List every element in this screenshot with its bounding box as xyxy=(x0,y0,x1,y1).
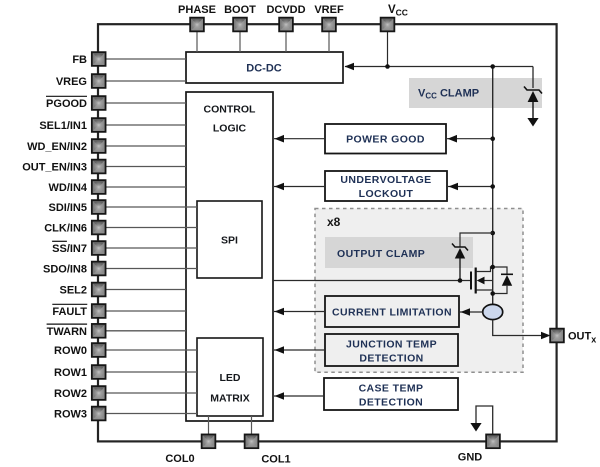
svg-text:DC-DC: DC-DC xyxy=(246,63,281,75)
pin ROW0 xyxy=(92,343,106,357)
pin VREF xyxy=(322,18,336,32)
control logic block xyxy=(186,92,273,421)
pin DCVDD xyxy=(279,18,293,32)
svg-text:ROW3: ROW3 xyxy=(54,409,87,421)
wire SEL2 xyxy=(104,289,186,291)
wire Vcc stub xyxy=(387,30,389,67)
pin BOOT xyxy=(233,18,247,32)
node bus top junction xyxy=(490,64,495,69)
pin WD_EN/IN2 xyxy=(92,139,106,153)
svg-text:VREF: VREF xyxy=(314,4,344,16)
pin GND xyxy=(486,435,500,449)
svg-text:DETECTION: DETECTION xyxy=(359,397,423,409)
wire OUT_EN/IN3 xyxy=(104,166,186,168)
pin VREG xyxy=(92,74,106,88)
case temp detection block xyxy=(324,378,458,410)
current sense source xyxy=(483,304,503,319)
svg-text:CASE TEMP: CASE TEMP xyxy=(359,383,424,395)
svg-text:COL1: COL1 xyxy=(261,454,290,466)
svg-text:GND: GND xyxy=(458,452,483,464)
svg-text:SDO/IN8: SDO/IN8 xyxy=(43,264,87,276)
wire FB xyxy=(104,58,186,60)
wire VREF stub xyxy=(328,30,330,52)
ground arrow xyxy=(470,423,481,432)
svg-text:LOGIC: LOGIC xyxy=(213,123,247,135)
svg-text:WD/IN4: WD/IN4 xyxy=(49,182,88,194)
wire SDO/IN8 xyxy=(104,268,197,270)
svg-text:SS/IN7: SS/IN7 xyxy=(52,243,87,255)
wire PHASE stub xyxy=(196,30,198,52)
svg-text:MATRIX: MATRIX xyxy=(210,393,249,405)
svg-text:ROW2: ROW2 xyxy=(54,388,87,400)
svg-text:BOOT: BOOT xyxy=(224,4,256,16)
pin OUT_EN/IN3 xyxy=(92,160,106,174)
node drain clamp junction xyxy=(490,231,495,236)
wire PGOOD xyxy=(104,102,186,104)
svg-text:POWER GOOD: POWER GOOD xyxy=(346,134,425,146)
wire ROW2 xyxy=(104,392,197,394)
wire WD/IN4 xyxy=(104,186,186,188)
svg-text:JUNCTION TEMP: JUNCTION TEMP xyxy=(346,339,437,351)
wire TWARN xyxy=(104,330,186,332)
svg-text:OUTPUT CLAMP: OUTPUT CLAMP xyxy=(337,248,425,260)
svg-text:SEL1/IN1: SEL1/IN1 xyxy=(39,120,87,132)
svg-text:FAULT: FAULT xyxy=(52,306,87,318)
node UVLO tap xyxy=(490,184,495,189)
wire COL0 stub xyxy=(208,416,210,436)
node power good tap xyxy=(490,136,495,141)
svg-text:DCVDD: DCVDD xyxy=(266,4,305,16)
pin FAULT xyxy=(92,304,106,318)
transistor output MOSFET xyxy=(471,267,493,294)
SPI block xyxy=(197,201,262,278)
x8 output cell dashed block xyxy=(315,209,523,373)
wire case temp to control xyxy=(274,395,324,397)
pin PHASE xyxy=(190,18,204,32)
DC-DC block xyxy=(186,52,343,83)
pin SDI/IN5 xyxy=(92,200,106,214)
wire SS/IN7 xyxy=(104,247,197,249)
svg-text:x8: x8 xyxy=(327,215,341,229)
wire VREG xyxy=(104,80,186,82)
wire sense to current limitation xyxy=(460,311,483,313)
pin SS/IN7 xyxy=(92,241,106,255)
overline TWARN xyxy=(47,323,88,325)
wire output net xyxy=(493,320,542,336)
wire COL1 stub xyxy=(251,416,253,436)
node clamp to gate junction xyxy=(458,278,463,283)
svg-text:FB: FB xyxy=(72,54,87,66)
pin SEL1/IN1 xyxy=(92,118,106,132)
node source junction xyxy=(490,291,495,296)
wire power good to control xyxy=(274,138,325,140)
wire current limitation to control xyxy=(274,311,325,313)
overline FAULT xyxy=(52,303,87,305)
svg-text:PGOOD: PGOOD xyxy=(46,98,87,110)
current limitation block xyxy=(325,296,459,327)
output clamp shaded band xyxy=(325,237,473,268)
pin SDO/IN8 xyxy=(92,262,106,276)
pin WD/IN4 xyxy=(92,180,106,194)
Vcc clamp shaded band xyxy=(409,78,542,108)
wire ROW0 xyxy=(104,349,197,351)
zener diode Vcc clamp xyxy=(524,87,542,120)
LED matrix block xyxy=(197,338,263,416)
wire FAULT xyxy=(104,310,186,312)
vertical Vcc bus xyxy=(492,67,494,306)
pin OUTx xyxy=(550,329,564,343)
pin Vcc xyxy=(381,18,395,32)
svg-text:SPI: SPI xyxy=(221,235,238,247)
junction temp detection block xyxy=(325,334,458,366)
svg-text:WD_EN/IN2: WD_EN/IN2 xyxy=(27,141,87,153)
pin ROW3 xyxy=(92,407,106,421)
pin ROW2 xyxy=(92,386,106,400)
pin CLK/IN6 xyxy=(92,221,106,235)
chip boundary xyxy=(98,24,557,441)
wire WD_EN/IN2 xyxy=(104,145,186,147)
wire clamp branch xyxy=(460,233,493,247)
pin FB xyxy=(92,52,106,66)
svg-text:SEL2: SEL2 xyxy=(59,285,87,297)
wire gate drive from control xyxy=(273,280,471,282)
svg-text:CLK/IN6: CLK/IN6 xyxy=(44,223,87,235)
power good block xyxy=(325,124,446,154)
wire internal ground return xyxy=(476,406,493,434)
wire UVLO to control xyxy=(274,186,325,188)
svg-text:LED: LED xyxy=(220,372,241,384)
wire junction temp to control xyxy=(274,349,325,351)
wire SEL1/IN1 xyxy=(104,124,186,126)
wire bus to power good xyxy=(447,138,493,140)
pin SEL2 xyxy=(92,283,106,297)
wire ROW3 xyxy=(104,413,197,415)
wire SDI/IN5 xyxy=(104,206,197,208)
pin PGOOD xyxy=(92,96,106,110)
wire Vcc clamp branch xyxy=(532,67,534,89)
wire Vcc horizontal net xyxy=(345,66,533,68)
svg-text:ROW0: ROW0 xyxy=(54,345,87,357)
diode MOSFET body diode xyxy=(493,267,513,294)
svg-text:OUT_EN/IN3: OUT_EN/IN3 xyxy=(22,162,87,174)
wire ROW1 xyxy=(104,371,197,373)
svg-text:SDI/IN5: SDI/IN5 xyxy=(48,202,87,214)
svg-text:TWARN: TWARN xyxy=(47,326,87,338)
ground arrow of Vcc clamp xyxy=(527,118,538,127)
svg-text:CURRENT LIMITATION: CURRENT LIMITATION xyxy=(332,307,452,319)
svg-text:UNDERVOLTAGE: UNDERVOLTAGE xyxy=(340,174,431,186)
svg-text:PHASE: PHASE xyxy=(178,4,216,16)
node drain junction xyxy=(490,265,495,270)
overline SS xyxy=(52,240,67,242)
undervoltage lockout block xyxy=(325,171,447,201)
wire CLK/IN6 xyxy=(104,227,197,229)
svg-text:CONTROL: CONTROL xyxy=(204,104,256,116)
pin COL1 xyxy=(245,435,259,449)
svg-text:COL0: COL0 xyxy=(165,453,194,465)
wire DCVDD stub xyxy=(285,30,287,52)
pin TWARN xyxy=(92,324,106,338)
node Vcc pin junction xyxy=(385,64,390,69)
zener diode output clamp xyxy=(452,244,468,281)
overline PGOOD xyxy=(46,95,87,97)
wire BOOT stub xyxy=(239,30,241,52)
wire bus to UVLO xyxy=(448,186,493,188)
svg-text:ROW1: ROW1 xyxy=(54,367,87,379)
pin COL0 xyxy=(202,435,216,449)
svg-text:LOCKOUT: LOCKOUT xyxy=(359,188,414,200)
pin ROW1 xyxy=(92,365,106,379)
svg-text:DETECTION: DETECTION xyxy=(359,353,423,365)
svg-text:VREG: VREG xyxy=(56,76,87,88)
